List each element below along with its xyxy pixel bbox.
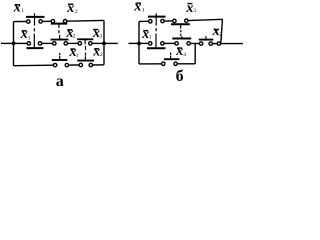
wire: scheme b top row segment 3	[188, 19, 223, 20]
contact B2: make contact x̄2, scheme a bottom row	[77, 56, 94, 66]
contact B1: make contact x̄1, scheme a bottom row	[52, 56, 69, 67]
contact N2: make contact, scheme b middle row	[172, 36, 191, 45]
svg-text:1: 1	[149, 35, 152, 41]
svg-text:2: 2	[100, 52, 103, 58]
contact N1: break contact x̄1, scheme b middle row	[147, 34, 166, 49]
svg-text:x: x	[175, 44, 183, 59]
wire: scheme a output lead	[104, 42, 118, 44]
wire: scheme b middle row segment 2	[164, 42, 175, 44]
contact K2: break contact x̄2, scheme a top row	[51, 20, 68, 28]
wire: scheme a middle row segment 2	[42, 42, 53, 44]
wire: scheme a bottom row segment 2	[69, 64, 80, 66]
wire: scheme a middle row segment 1	[14, 42, 28, 44]
svg-text:3: 3	[99, 34, 102, 40]
label x̄3 of contact T2	[185, 1, 196, 16]
svg-text:x: x	[66, 1, 74, 16]
wire: scheme a top row segment 3	[67, 19, 104, 22]
wire: scheme a right vertical bus	[103, 20, 105, 64]
contact T2: break contact x̄3, scheme b top row	[171, 19, 190, 29]
wire: scheme b parallel loop right vertical	[194, 43, 196, 63]
mechanical link dash M3-B2 upper	[85, 46, 87, 50]
contact P1: make contact x̄4, scheme b parallel loop	[162, 56, 180, 66]
node: scheme b left junction dot	[137, 42, 141, 46]
svg-text:а: а	[56, 73, 64, 90]
svg-text:x: x	[13, 1, 21, 16]
label x̄2 of contact K2	[66, 1, 78, 16]
contact N3: make contact x̄2, scheme b middle row	[199, 36, 214, 45]
wire: scheme a middle row segment 4	[92, 42, 104, 44]
label x̄1 of contact N1	[141, 27, 152, 42]
svg-text:x: x	[133, 0, 141, 15]
wire: scheme b middle row segment 3	[190, 42, 199, 44]
label x̄2 of contact M2	[66, 26, 76, 41]
wire: scheme a top row segment 1	[14, 21, 27, 23]
svg-text:1: 1	[28, 35, 31, 41]
mechanical link dash T1-N1	[155, 28, 157, 31]
svg-text:1: 1	[76, 53, 79, 59]
wire: scheme a bottom row segment 3	[92, 64, 104, 66]
contact T1: make contact x̄1, scheme b top row	[148, 13, 166, 25]
label x̄1 of contact M1	[20, 27, 31, 42]
wire: scheme a input lead	[1, 42, 14, 44]
wire: scheme a middle row segment 3	[67, 42, 78, 44]
mechanical link dash M2-B1	[59, 53, 61, 55]
svg-text:x: x	[20, 27, 28, 42]
svg-text:1: 1	[21, 8, 24, 14]
label x̄4 of contact P1	[175, 44, 186, 59]
wire: scheme b top row segment 2	[164, 20, 173, 22]
node: scheme a left junction dot	[12, 42, 16, 46]
contact M3: make contact x̄3, scheme a middle row	[77, 39, 93, 45]
wire: scheme b input lead	[129, 42, 140, 44]
wire: scheme b output lead	[221, 43, 244, 45]
wire: scheme b parallel loop bottom segment 2	[177, 63, 195, 65]
label x̄1 of contact T1	[133, 0, 145, 15]
svg-text:2: 2	[219, 32, 222, 38]
svg-text:2: 2	[73, 34, 76, 40]
wire: scheme b parallel loop bottom segment 1	[139, 63, 162, 65]
label x̄1 of contact B1	[69, 45, 79, 60]
wire: scheme b top row segment 1	[139, 20, 149, 22]
wire: scheme a left vertical bus	[13, 22, 15, 66]
node: terminal circle where top branch joins	[217, 42, 220, 45]
wire: scheme b left vertical bus	[138, 21, 140, 64]
mechanical link dash T2-N2 lower	[180, 34, 182, 36]
wire: scheme b top-right vertical drop	[221, 19, 223, 42]
label x̄1 of contact K1	[13, 1, 25, 16]
contact M2: make contact x̄2, scheme a middle row	[51, 35, 69, 45]
contact K1: make contact x̄1, scheme a top row	[26, 13, 45, 26]
node: scheme a right junction dot	[102, 42, 106, 46]
svg-text:2: 2	[75, 9, 78, 15]
svg-text:4: 4	[183, 52, 186, 58]
contact M1: break contact x̄1, scheme a middle row	[27, 34, 44, 49]
mechanical link dash N2-P1	[170, 52, 172, 55]
mechanical link dash K2-M2	[58, 30, 60, 33]
label x̄3 of contact M3	[92, 26, 102, 41]
mechanical link dash K1-M1	[33, 28, 35, 31]
svg-text:б: б	[176, 68, 184, 85]
wire: scheme b middle row segment 1	[139, 42, 149, 44]
wire: scheme a top row segment 2	[42, 20, 51, 22]
wire: scheme b middle row segment 4	[212, 43, 217, 45]
wire: scheme a bottom row segment 1	[14, 64, 54, 67]
svg-text:3: 3	[193, 8, 196, 14]
mechanical link dash T2-N2 upper	[180, 30, 182, 32]
mechanical link dash M3-B2 lower	[85, 53, 87, 56]
svg-text:1: 1	[142, 8, 145, 14]
label x̄2 of contact N3	[212, 24, 223, 39]
label x̄2 of contact B2	[92, 44, 103, 59]
